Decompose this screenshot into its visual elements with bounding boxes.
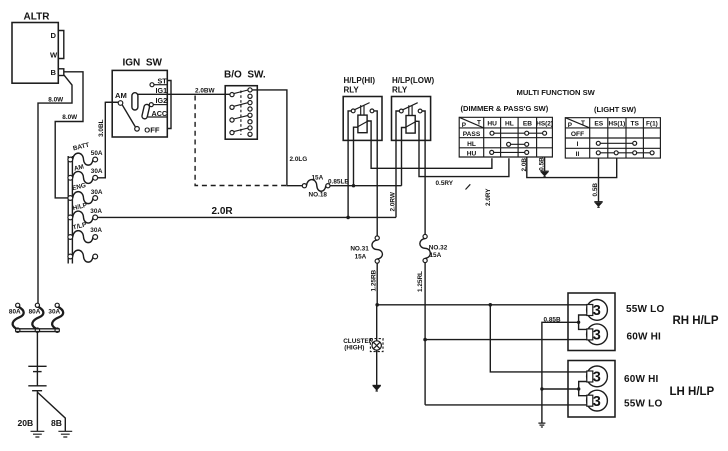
svg-text:60W HI: 60W HI (627, 332, 662, 343)
svg-text:ALTR: ALTR (24, 12, 51, 23)
wire 2.0RW LOW contact left lead to 2.0R (389, 111, 399, 217)
svg-text:8.0W: 8.0W (62, 114, 78, 121)
fusible link 80A (left) (9, 303, 24, 332)
wire HI coil left lead to 0.85LB (354, 127, 358, 186)
svg-text:ST: ST (158, 76, 168, 85)
svg-text:OFF: OFF (571, 131, 584, 138)
dimmer table row labels (463, 131, 481, 157)
wire 8.0W from B to battery links (38, 75, 72, 303)
IGN SW terminal AM (115, 91, 127, 105)
cluster high beam indicator lamp (343, 338, 383, 352)
svg-text:NO.18: NO.18 (309, 192, 328, 199)
stray mark (466, 184, 471, 189)
svg-text:HS(1): HS(1) (609, 121, 626, 128)
svg-text:H/LP(LOW): H/LP(LOW) (392, 76, 435, 85)
svg-text:30A: 30A (91, 168, 103, 175)
ignition switch IGN SW (112, 58, 167, 138)
dimmer PASS row contacts (490, 131, 547, 135)
junction LH bracket (577, 387, 580, 390)
wire 2.0LG from B/O SW to fuse NO.18 (252, 90, 307, 186)
dashed interlock line from IGN SW to fuse NO.18 (195, 96, 286, 186)
fuse ENG 30A (68, 182, 103, 204)
light switch table grid (565, 118, 660, 158)
svg-text:B/O SW.: B/O SW. (224, 70, 266, 81)
svg-text:W: W (50, 51, 58, 60)
svg-text:8B: 8B (51, 418, 62, 428)
junction 1.25RL branch to RH 60W HI (423, 338, 427, 342)
svg-text:80A: 80A (29, 309, 41, 316)
svg-text:D: D (51, 31, 57, 40)
wire 2.0BW from IG1 to B/O switch (138, 87, 230, 94)
svg-text:2.0BW: 2.0BW (195, 87, 215, 94)
dimmer HL row contacts (507, 142, 529, 146)
svg-text:3: 3 (593, 394, 601, 410)
junction on 0.85LB at HI relay coil (352, 184, 355, 187)
blackout switch B/O SW (224, 70, 266, 140)
svg-text:8.0W: 8.0W (48, 97, 64, 104)
IGN SW position OFF (135, 126, 160, 135)
fuse NO.18 15A (302, 174, 330, 198)
wire 0.5B from light switch ES to ground (592, 158, 599, 202)
svg-text:HL: HL (505, 120, 514, 127)
B/O SW pole 1 (230, 88, 252, 99)
svg-text:(HIGH): (HIGH) (344, 345, 364, 352)
svg-text:15A: 15A (355, 254, 367, 261)
wire 3.0BL from AM fuse to ignition switch (98, 102, 119, 178)
svg-text:OFF: OFF (144, 126, 160, 135)
svg-text:30A: 30A (90, 227, 102, 234)
fuse T/LP 30A (68, 221, 103, 242)
svg-text:IGN SW: IGN SW (123, 58, 163, 69)
svg-text:30A: 30A (90, 208, 102, 215)
svg-text:2.0RY: 2.0RY (485, 188, 492, 206)
B/O SW mechanical link (dashed) (240, 91, 242, 136)
ground under cluster lamp (373, 385, 381, 391)
light table header labels (568, 120, 658, 129)
svg-text:15A: 15A (430, 252, 442, 259)
svg-text:0.5B: 0.5B (592, 183, 599, 197)
svg-text:IG2: IG2 (156, 96, 168, 105)
svg-text:3: 3 (593, 328, 601, 344)
IGN SW terminal ST (150, 76, 167, 86)
ground 20B (31, 431, 45, 437)
ground 8B (58, 431, 72, 437)
IGN SW contact ACC (141, 104, 167, 119)
wire 0.5B from dimmer HS(2) to ground (538, 157, 545, 171)
svg-text:2.0R: 2.0R (212, 206, 234, 217)
svg-text:NO.31: NO.31 (350, 246, 369, 253)
IGN SW right terminal bracket (167, 81, 171, 129)
junction on 2.0R at HI relay (346, 216, 350, 220)
fuse NO.31 15A (350, 236, 382, 263)
svg-text:ES: ES (594, 121, 603, 128)
svg-text:60W HI: 60W HI (624, 374, 659, 385)
IGN SW terminal IG2 (149, 96, 167, 106)
svg-text:20B: 20B (18, 418, 34, 428)
junction low feed branch to LH lamp (489, 303, 493, 307)
ground for headlamps (538, 423, 545, 427)
wire to cluster high beam indicator (376, 305, 378, 341)
svg-text:F(1): F(1) (646, 121, 658, 128)
svg-text:55W LO: 55W LO (624, 399, 662, 410)
wire LOW contact right lead to fuse NO.32 (422, 111, 425, 234)
wire 0.85LB from fuse NO.18 to relay coils (328, 179, 402, 186)
svg-text:HU: HU (487, 120, 497, 127)
svg-text:1.25RL: 1.25RL (417, 271, 424, 292)
relay U2 H/LP(LOW) RLY (392, 76, 435, 140)
svg-text:RLY: RLY (392, 86, 408, 95)
wire branch to LH 60W HI lamp (490, 305, 587, 372)
svg-text:30A: 30A (91, 189, 103, 196)
LOW relay armature (409, 105, 412, 115)
svg-text:0.5B: 0.5B (538, 157, 545, 171)
svg-text:HL: HL (467, 141, 476, 148)
ALTR D-W connector bracket (58, 31, 64, 59)
LH 55W LO bulb (587, 390, 663, 411)
svg-text:EB: EB (523, 120, 532, 127)
light switch row I contacts (596, 141, 636, 145)
wire LH common to 0.85B (542, 388, 579, 390)
dimmer HU row contacts (490, 150, 529, 154)
ground under dimmer HS(2) (540, 171, 548, 177)
LOW relay contact (399, 103, 422, 113)
svg-text:B: B (51, 68, 57, 77)
wire 1.25RL from fuse NO.32 (417, 263, 425, 405)
wire LOW coil left lead to 0.85LB (402, 128, 407, 186)
dimmer table header labels (462, 120, 553, 129)
wire RH lamp common bracket (579, 315, 587, 329)
svg-text:50A: 50A (91, 150, 103, 157)
junction RH common to 0.85B (577, 321, 580, 324)
svg-text:0.85LB: 0.85LB (328, 179, 349, 186)
RH 60W HI bulb (587, 324, 661, 345)
HI relay coil (357, 115, 369, 133)
B/O SW pole 2 (230, 101, 252, 112)
RH 55W LO bulb (587, 300, 665, 321)
wire to LH 55W LO lamp (425, 404, 587, 406)
svg-text:15A: 15A (312, 174, 324, 181)
wire 2.0R from H/LP fuse to relays (98, 206, 396, 217)
svg-text:LH H/LP: LH H/LP (670, 386, 715, 398)
svg-text:(LIGHT SW): (LIGHT SW) (594, 105, 637, 114)
svg-text:I: I (577, 141, 579, 148)
svg-text:2.0LG: 2.0LG (290, 156, 308, 163)
battery (28, 366, 46, 390)
svg-text:(DIMMER & PASS'G SW): (DIMMER & PASS'G SW) (461, 104, 549, 113)
wire branch to RH 60W HI lamp (425, 339, 587, 341)
junction 1.25RB feed node (375, 303, 379, 307)
svg-text:0.85B: 0.85B (544, 316, 561, 323)
svg-text:P: P (462, 122, 467, 129)
dimmer switch table grid (459, 117, 552, 157)
light table row labels (571, 131, 584, 158)
wire 8.0W from B to fuse bus (55, 72, 83, 198)
wire HI contact right lead to fuse NO.31 (374, 111, 377, 236)
alternator ALTR (12, 12, 58, 84)
wire headlamp low feed to RH 55W LO (377, 304, 587, 306)
svg-text:30A: 30A (48, 309, 60, 316)
fuse NO.32 15A (420, 234, 448, 262)
svg-text:T: T (581, 120, 585, 127)
svg-text:NO.32: NO.32 (429, 245, 448, 252)
IGN SW rotor lever (122, 105, 135, 127)
wire battery feed (36, 332, 38, 366)
fusible link 30A (right) (48, 303, 63, 332)
wire 20B battery to ground (18, 391, 38, 432)
wire LH lamp common bracket (579, 382, 587, 396)
wire AM feed into IGN SW (105, 101, 118, 103)
HI relay contact (351, 103, 374, 113)
wire cluster lamp to ground (376, 350, 378, 385)
unlabeled spare fuse (68, 250, 98, 262)
svg-text:MULTI FUNCTION SW: MULTI FUNCTION SW (517, 88, 596, 97)
svg-text:2.0RW: 2.0RW (389, 191, 396, 211)
svg-text:55W LO: 55W LO (626, 304, 664, 315)
fuse AM 30A (68, 164, 103, 184)
svg-text:3.0BL: 3.0BL (98, 119, 105, 136)
svg-text:P: P (568, 122, 573, 129)
fusible link 80A (middle) (29, 303, 44, 332)
svg-text:II: II (576, 151, 580, 158)
fusible link bus bar (15, 329, 59, 332)
svg-text:T: T (477, 120, 481, 127)
LH headlamp housing (568, 361, 715, 418)
IGN SW contact IG1 (132, 86, 167, 110)
svg-text:HU: HU (467, 150, 477, 157)
svg-text:PASS: PASS (463, 131, 481, 138)
wire 0.85B earth return (542, 316, 579, 423)
svg-text:H/LP(HI): H/LP(HI) (344, 76, 376, 85)
LH 60W HI bulb (587, 366, 659, 387)
svg-text:HS(2): HS(2) (536, 120, 553, 127)
wire 2.0B from dimmer EB to light switch HS(1) (521, 157, 617, 178)
HI relay armature (361, 105, 364, 115)
wire 8B branch to ground (38, 392, 66, 431)
wire 0.5RY LOW coil right lead to dimmer switch HL (415, 121, 509, 187)
fuse H/LP 30A (68, 202, 103, 223)
svg-text:RH H/LP: RH H/LP (673, 315, 719, 327)
ground under light switch ES (594, 202, 602, 208)
wire HI coil right lead to dimmer switch HU (367, 121, 492, 168)
LOW relay coil (405, 116, 417, 134)
wire HI contact left lead to 2.0R (348, 111, 351, 217)
relay U1 H/LP(HI) RLY (343, 76, 382, 140)
light switch row II contacts (596, 151, 654, 155)
RH headlamp housing (568, 293, 719, 351)
fuse BATT 50A (68, 142, 103, 166)
junction LH common on 0.85B (540, 387, 543, 390)
B/O SW pole 4 (230, 126, 252, 137)
svg-text:80A: 80A (9, 309, 21, 316)
svg-text:3: 3 (593, 370, 601, 386)
svg-text:RLY: RLY (344, 86, 360, 95)
fuse block bus bar (68, 156, 72, 264)
svg-text:1.25RB: 1.25RB (371, 269, 378, 291)
ALTR B terminal (58, 69, 64, 76)
svg-text:3: 3 (593, 303, 601, 319)
wire 1.25RB from fuse NO.31 (371, 263, 378, 305)
svg-text:2.0B: 2.0B (521, 158, 528, 172)
svg-text:0.5RY: 0.5RY (436, 180, 454, 187)
svg-text:TS: TS (630, 121, 639, 128)
svg-text:AM: AM (115, 91, 127, 100)
B/O SW pole 3 (230, 113, 252, 124)
